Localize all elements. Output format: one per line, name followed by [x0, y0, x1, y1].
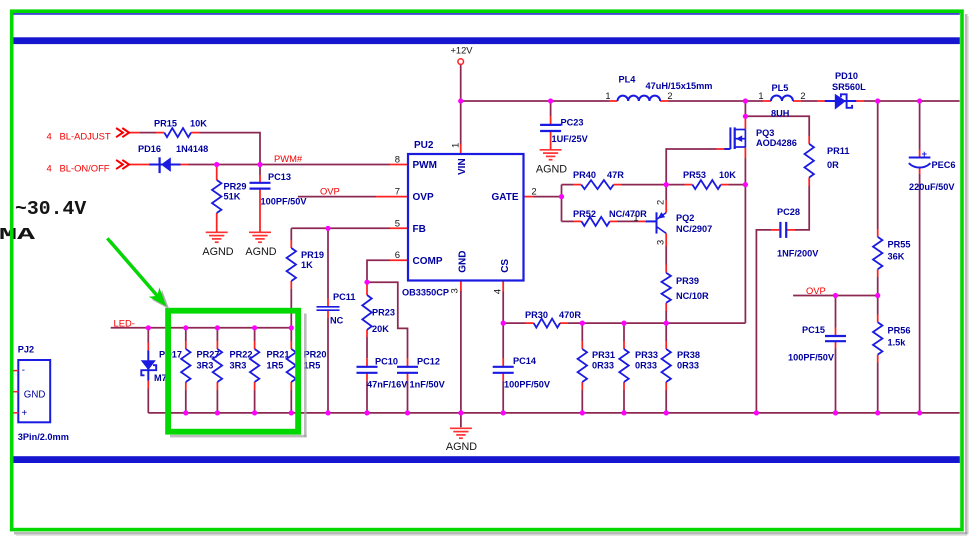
resistor PR20	[287, 349, 327, 382]
svg-text:PR56: PR56	[888, 326, 911, 336]
port BL-ADJUST	[47, 128, 130, 142]
svg-text:2: 2	[667, 91, 672, 101]
svg-text:PC28: PC28	[777, 207, 800, 217]
wire VIN feed	[460, 101, 462, 154]
svg-text:CS: CS	[500, 259, 511, 273]
svg-text:7: 7	[395, 187, 400, 198]
capacitor PC14	[493, 356, 551, 390]
node junctions gate drive	[559, 182, 748, 199]
resistor PR15	[154, 119, 207, 138]
svg-text:PC23: PC23	[561, 118, 584, 128]
svg-text:PR22: PR22	[230, 350, 253, 360]
svg-text:4 BL-ADJUST: 4 BL-ADJUST	[47, 131, 111, 142]
node junctions ground rail	[183, 410, 922, 415]
resistor PR39	[662, 273, 710, 303]
svg-text:0R33: 0R33	[592, 361, 614, 371]
svg-text:47R: 47R	[607, 170, 624, 180]
svg-text:2: 2	[531, 187, 536, 198]
svg-text:3Pin/2.0mm: 3Pin/2.0mm	[18, 432, 69, 442]
power +12V	[451, 45, 474, 64]
resistor PR19	[287, 248, 324, 281]
svg-text:PR38: PR38	[677, 350, 700, 360]
resistor PR21	[250, 349, 290, 382]
resistor PR29	[212, 180, 246, 213]
svg-text:MA: MA	[0, 226, 36, 245]
svg-text:PR55: PR55	[888, 240, 911, 250]
svg-text:PWM: PWM	[413, 160, 437, 171]
svg-text:PR53: PR53	[683, 170, 706, 180]
svg-text:220uF/50V: 220uF/50V	[909, 182, 955, 192]
svg-text:36K: 36K	[888, 252, 905, 262]
svg-text:LED-: LED-	[114, 317, 135, 328]
resistor PR55	[873, 237, 910, 269]
svg-text:3R3: 3R3	[230, 361, 247, 371]
resistor PR38	[662, 349, 700, 382]
inductor PL5	[758, 83, 805, 119]
wire PR11 to PC28	[787, 178, 809, 230]
node junctions CS row	[501, 321, 669, 326]
inductor PL4	[605, 75, 712, 101]
pin number 3 PQ2	[656, 240, 666, 245]
wire ground rail	[148, 412, 959, 414]
svg-text:AOD4286: AOD4286	[756, 138, 797, 148]
svg-text:NC/2907: NC/2907	[676, 224, 712, 234]
svg-text:8: 8	[395, 155, 400, 166]
port BL-ON/OFF	[47, 160, 130, 174]
svg-text:PC15: PC15	[802, 325, 825, 335]
wire gate drive top row PR40 PR53	[562, 184, 746, 186]
pin number 2 GATE	[531, 187, 536, 198]
svg-text:PR15: PR15	[154, 119, 177, 129]
resistor PR27	[181, 349, 219, 382]
node junction FB	[325, 226, 330, 231]
capacitor PC15	[788, 325, 846, 363]
svg-text:PC14: PC14	[513, 356, 537, 366]
svg-text:~30.4V: ~30.4V	[15, 198, 86, 220]
svg-text:PR21: PR21	[267, 350, 290, 360]
wire COMP net	[367, 260, 408, 282]
resistor PR31	[578, 349, 615, 382]
diode PD10	[825, 71, 866, 109]
svg-text:PR30: PR30	[525, 310, 548, 320]
svg-text:PR29: PR29	[224, 181, 247, 191]
svg-text:10K: 10K	[190, 119, 207, 129]
svg-text:AGND: AGND	[446, 441, 477, 453]
wire OVP net right	[793, 295, 878, 297]
transistor PQ3 AOD4286	[724, 127, 796, 149]
green highlight box	[168, 311, 307, 438]
svg-text:PD16: PD16	[138, 144, 161, 154]
svg-text:PR11: PR11	[827, 146, 849, 156]
svg-text:AGND: AGND	[536, 164, 567, 176]
wire 8UH branch to PR11	[745, 116, 809, 144]
svg-text:COMP: COMP	[413, 256, 443, 267]
capacitor PC12	[397, 357, 446, 390]
pin number 8	[395, 155, 400, 166]
thin blue sheet line top	[13, 13, 959, 15]
wire PR27 leg	[185, 328, 187, 413]
node junctions +12V rail	[458, 98, 922, 119]
svg-text:0R: 0R	[827, 160, 839, 170]
svg-text:+: +	[22, 408, 28, 419]
resistor PR40	[573, 170, 624, 189]
svg-text:4: 4	[493, 289, 504, 294]
svg-text:1N4148: 1N4148	[176, 144, 208, 154]
pin number 1 VIN	[451, 143, 462, 148]
wire PR20 leg	[290, 328, 292, 413]
net label PWM#	[274, 153, 303, 164]
svg-text:8UH: 8UH	[771, 109, 790, 119]
text annotation MA	[0, 226, 36, 245]
capacitor PC13	[250, 172, 308, 207]
wire PQ3 drain	[744, 101, 746, 129]
capacitor PC10	[357, 357, 409, 390]
svg-text:3R3: 3R3	[197, 361, 214, 371]
svg-text:100PF/50V: 100PF/50V	[788, 353, 835, 363]
op-amp U1 chip PU2 OB3350CP	[402, 140, 524, 297]
svg-text:PEC6: PEC6	[932, 160, 956, 170]
wire PC23 branch	[550, 101, 552, 149]
svg-text:100PF/50V: 100PF/50V	[504, 380, 551, 390]
svg-text:+: +	[922, 149, 928, 160]
svg-text:PR27: PR27	[197, 350, 220, 360]
svg-text:20K: 20K	[372, 324, 389, 334]
wire PQ3 source stub	[744, 147, 746, 194]
svg-text:PL4: PL4	[619, 75, 637, 85]
wire OVP net at pin 7	[298, 196, 408, 198]
wire PL4 pins	[609, 100, 669, 102]
wire PR55 PR56 chain	[877, 101, 879, 413]
resistor PR23	[362, 295, 395, 334]
svg-text:PJ2: PJ2	[18, 345, 34, 355]
svg-text:OVP: OVP	[413, 192, 434, 203]
wire PR21 leg	[254, 328, 256, 413]
svg-text:PR33: PR33	[635, 350, 658, 360]
wire PEC6 leg	[919, 101, 921, 413]
svg-text:51K: 51K	[224, 191, 241, 201]
thick blue bar top	[13, 37, 959, 44]
svg-text:PQ2: PQ2	[676, 213, 694, 223]
svg-text:1.5k: 1.5k	[888, 337, 907, 347]
wire +12V rail	[461, 64, 960, 101]
ground AGND under PR29	[202, 232, 233, 258]
ground AGND center	[446, 428, 477, 453]
svg-text:0R33: 0R33	[677, 361, 699, 371]
svg-text:PR20: PR20	[304, 350, 327, 360]
svg-text:NC/10R: NC/10R	[676, 291, 709, 301]
wire chip GND pin 3	[460, 281, 462, 428]
pin number 6	[395, 250, 400, 261]
ground AGND under PC23	[536, 150, 567, 176]
wire PR31 leg	[581, 323, 583, 413]
svg-text:2: 2	[656, 200, 666, 205]
svg-text:GATE: GATE	[491, 192, 518, 203]
transistor PQ2 NC/2907	[646, 212, 713, 234]
pin number 4 CS	[493, 289, 504, 294]
wire PD10 pins	[817, 100, 864, 102]
svg-text:OVP: OVP	[806, 285, 826, 296]
svg-text:PC13: PC13	[268, 172, 291, 182]
resistor PR53	[683, 170, 736, 189]
wire PR38 leg	[665, 323, 667, 413]
wire LED- net	[111, 327, 292, 329]
pin number 1 PQ2 base	[633, 213, 638, 223]
svg-text:5: 5	[395, 218, 400, 229]
wire gate drive bottom row PR52	[562, 220, 646, 222]
wire BL-ADJUST through PR15	[130, 133, 261, 165]
net label OVP right	[806, 285, 826, 296]
wire PR22 leg	[216, 328, 218, 413]
svg-text:PR23: PR23	[372, 308, 395, 318]
svg-text:47nF/16V: 47nF/16V	[367, 380, 408, 390]
wire PQ3 gate line	[666, 149, 724, 185]
wire COMP right branch to PC12	[367, 282, 408, 413]
wire PC13 branch	[259, 165, 261, 232]
pin number 3 GND	[450, 288, 461, 293]
wire FB net	[291, 227, 408, 229]
svg-text:PC10: PC10	[375, 357, 398, 367]
svg-text:AGND: AGND	[202, 246, 233, 258]
wire CS sense row	[503, 194, 745, 324]
svg-text:0R33: 0R33	[635, 361, 657, 371]
pin number 5	[395, 218, 400, 229]
svg-text:OVP: OVP	[320, 185, 340, 196]
text annotation 30.4V	[15, 198, 86, 220]
svg-text:PL5: PL5	[772, 83, 789, 93]
node junctions OVP right	[833, 293, 880, 298]
wire GATE net	[524, 185, 562, 222]
svg-text:PWM#: PWM#	[274, 153, 303, 164]
wire BL-ON/OFF / PWM# net	[130, 164, 409, 166]
svg-text:100PF/50V: 100PF/50V	[261, 197, 308, 207]
ground AGND under PC13	[245, 232, 276, 258]
resistor PR33	[619, 349, 658, 382]
svg-text:47uH/15x15mm: 47uH/15x15mm	[646, 81, 713, 91]
thick blue bar bottom	[13, 456, 959, 463]
wire PD17 leg	[147, 328, 149, 413]
svg-text:VIN: VIN	[457, 158, 468, 175]
node junctions LED- row	[146, 325, 294, 330]
svg-text:3: 3	[656, 240, 666, 245]
svg-text:SR560L: SR560L	[832, 82, 866, 92]
node junctions PWM row	[214, 162, 263, 167]
svg-text:OB3350CP: OB3350CP	[402, 287, 449, 297]
svg-text:PU2: PU2	[414, 140, 434, 151]
diode PD16	[138, 144, 208, 173]
svg-text:1: 1	[605, 91, 610, 101]
svg-text:PR40: PR40	[573, 170, 596, 180]
wire PC28 left to ground	[756, 230, 779, 413]
svg-text:3: 3	[450, 288, 461, 293]
wire PQ2 emitter/collector verticals	[665, 185, 667, 324]
svg-text:PR52: PR52	[573, 209, 596, 219]
svg-text:FB: FB	[413, 224, 426, 235]
diode PD17 M7	[141, 350, 182, 384]
svg-text:GND: GND	[24, 389, 46, 400]
svg-text:PC11: PC11	[333, 292, 355, 302]
resistor PR56	[873, 322, 910, 354]
pin number 2 PQ2	[656, 200, 666, 205]
svg-text:1R5: 1R5	[267, 361, 284, 371]
svg-text:10K: 10K	[719, 170, 736, 180]
svg-text:PQ3: PQ3	[756, 128, 774, 138]
svg-text:1UF/25V: 1UF/25V	[552, 134, 589, 144]
svg-text:NC/470R: NC/470R	[609, 209, 647, 219]
pin number 7	[395, 187, 400, 198]
resistor PR11	[805, 144, 850, 178]
svg-text:PR39: PR39	[676, 276, 699, 286]
svg-text:PR19: PR19	[301, 250, 324, 260]
node junction COMP	[364, 280, 369, 285]
wire PR29 branch	[216, 165, 218, 232]
svg-text:1nF/50V: 1nF/50V	[410, 380, 446, 390]
svg-text:PR31: PR31	[592, 350, 615, 360]
svg-text:4 BL-ON/OFF: 4 BL-ON/OFF	[47, 163, 110, 174]
svg-text:M7: M7	[154, 373, 167, 383]
wire chip CS pin 4	[502, 281, 504, 413]
svg-text:2: 2	[800, 91, 805, 101]
svg-text:PC12: PC12	[417, 357, 440, 367]
svg-text:1NF/200V: 1NF/200V	[777, 249, 819, 259]
wire PC15 leg	[835, 296, 837, 413]
svg-text:1: 1	[633, 213, 638, 223]
svg-text:-: -	[22, 365, 25, 376]
wire FB to PR19 to LED-	[290, 228, 292, 327]
svg-text:AGND: AGND	[245, 246, 276, 258]
capacitor PC28	[777, 207, 819, 259]
green arrow	[107, 238, 169, 309]
svg-text:1: 1	[451, 143, 462, 148]
capacitor PC11	[317, 292, 356, 326]
wire FB junction to PC11	[327, 228, 329, 413]
resistor PR30	[525, 310, 581, 328]
resistor PR52	[573, 209, 647, 226]
connector PJ2	[12, 345, 69, 442]
net label LED-	[114, 317, 135, 328]
svg-text:PD10: PD10	[835, 71, 858, 81]
svg-text:+12V: +12V	[451, 45, 474, 55]
net label OVP left	[320, 185, 340, 196]
svg-text:NC: NC	[330, 316, 344, 326]
svg-text:GND: GND	[457, 251, 468, 273]
resistor PR22	[213, 349, 253, 382]
svg-text:1: 1	[758, 91, 763, 101]
capacitor PEC6	[909, 149, 956, 192]
svg-text:470R: 470R	[559, 310, 581, 320]
svg-text:1K: 1K	[301, 260, 313, 270]
wire PL5 pins	[763, 100, 802, 102]
wire PR23 chain to PC10	[366, 282, 368, 413]
capacitor PC23	[540, 118, 589, 145]
svg-text:6: 6	[395, 250, 400, 261]
wire PR33 leg	[623, 323, 625, 413]
